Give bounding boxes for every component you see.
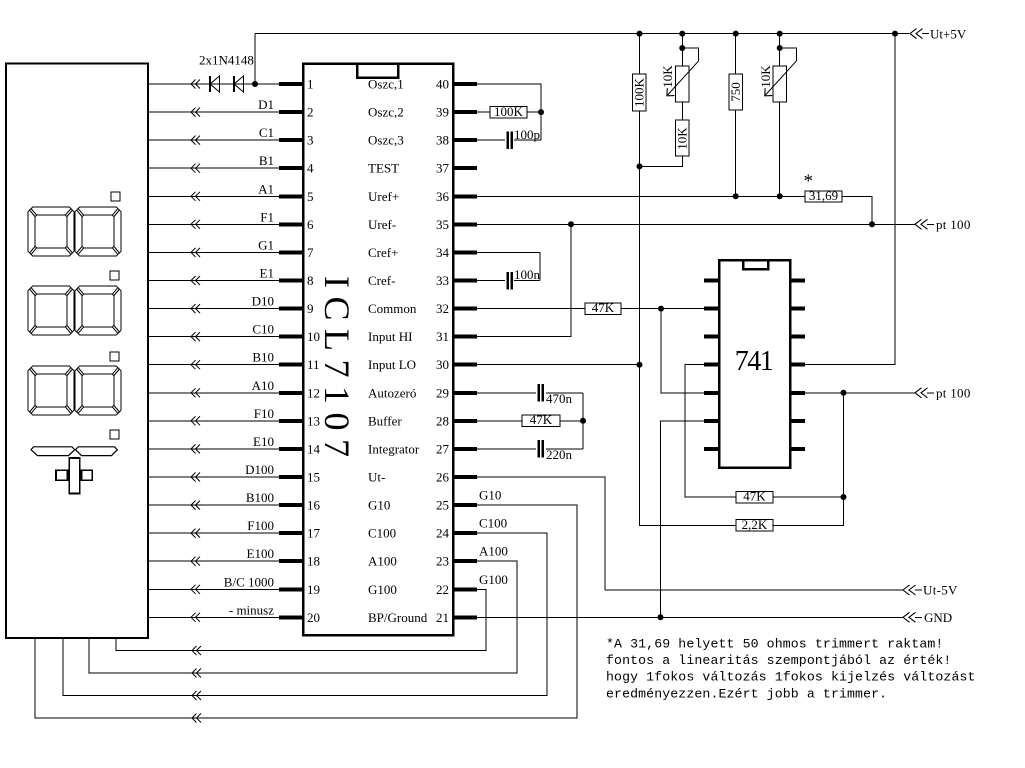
wire segment display to pin 15 (D100): [148, 476, 279, 478]
svg-text:Uref-: Uref-: [368, 217, 396, 232]
svg-text:- minusz: - minusz: [229, 602, 274, 617]
741 left pin 1 stub: [704, 279, 719, 283]
svg-text:9: 9: [307, 301, 314, 316]
ICL7107 pin 38 stub: [453, 138, 477, 142]
svg-text:A10: A10: [252, 378, 274, 393]
arrow on wire B/C 1000: [191, 585, 200, 594]
svg-text:G1: G1: [258, 237, 274, 252]
svg-text:C10: C10: [252, 322, 274, 337]
741 right pin 9 stub: [790, 419, 805, 423]
arrow into display (pin1 wire): [191, 80, 200, 89]
svg-text:Autozeró: Autozeró: [368, 385, 416, 400]
junction node rail/trimmer P1: [679, 31, 685, 37]
ICL7107 pin 7 stub: [279, 250, 303, 254]
svg-text:27: 27: [436, 441, 450, 456]
ICL7107 pin 20 stub: [279, 615, 303, 619]
svg-text:47K: 47K: [592, 300, 615, 315]
ICL7107 pin 23 stub: [453, 559, 477, 563]
svg-text:26: 26: [436, 470, 450, 485]
svg-text:F1: F1: [260, 209, 274, 224]
svg-text:23: 23: [436, 554, 449, 569]
svg-text:Integrator: Integrator: [368, 441, 420, 456]
ICL7107 pin 30 stub: [453, 363, 477, 367]
741 left pin 2 stub: [704, 307, 719, 311]
wire pin30 Input LO to divider line: [477, 364, 640, 366]
svg-text:750: 750: [728, 82, 743, 102]
wire segment display to pin 6 (F1): [148, 223, 279, 225]
wire segment display to pin 14 (E10): [148, 448, 279, 450]
svg-text:21: 21: [436, 610, 449, 625]
arrow on wire C1: [191, 136, 200, 145]
ICL7107 pin 11 stub: [279, 363, 303, 367]
svg-text:33: 33: [436, 273, 449, 288]
wire pin31 Input HI up to Uref- line: [477, 224, 571, 336]
junction node 100K/10K bottom: [637, 163, 643, 169]
svg-text:Input LO: Input LO: [368, 357, 416, 372]
arrow on G10 loop wire: [192, 714, 201, 723]
ICL7107 pin 12 stub: [279, 391, 303, 395]
capacitor C4 220n: [538, 440, 541, 458]
svg-text:35: 35: [436, 217, 449, 232]
ICL7107 pin 19 stub: [279, 587, 303, 591]
arrow on A100 loop wire: [192, 669, 201, 678]
svg-text:B10: B10: [252, 350, 274, 365]
ICL7107 pin 39 stub: [453, 110, 477, 114]
wire segment display to pin 18 (E100): [148, 560, 279, 562]
junction node rail/trimmer P2: [777, 31, 783, 37]
svg-text:13: 13: [307, 413, 320, 428]
arrow on wire F10: [191, 416, 200, 425]
svg-text:2,2K: 2,2K: [742, 517, 768, 532]
resistor R6 10K body: [681, 102, 683, 120]
svg-text:3: 3: [307, 133, 314, 148]
svg-text:E1: E1: [260, 266, 274, 281]
svg-text:29: 29: [436, 385, 449, 400]
arrow on C100 loop wire: [192, 691, 201, 700]
wire C 470n to RC junction: [546, 392, 583, 394]
wire segment display to pin 5 (A1): [148, 195, 279, 197]
arrow Ut+5V: [910, 29, 923, 39]
trimmer P2 10K body: [779, 34, 781, 66]
svg-text:hogy 1fokos változás 1fokos ki: hogy 1fokos változás 1fokos kijelzés vál…: [606, 670, 976, 685]
arrow on wire B10: [191, 360, 200, 369]
ICL7107 pin 5 stub: [279, 194, 303, 198]
wire segment display to pin 10 (C10): [148, 336, 279, 338]
wire G10 from chip pin to display (loop): [35, 505, 577, 718]
svg-text:19: 19: [307, 582, 320, 597]
wire R 31,69 to pt100 line: [842, 196, 872, 224]
trimmer P2 wiper wire and arrow: [780, 48, 797, 61]
svg-text:12: 12: [307, 385, 320, 400]
wire segment display to pin 17 (F100): [148, 532, 279, 534]
ICL7107 pin 15 stub: [279, 475, 303, 479]
svg-text:28: 28: [436, 413, 449, 428]
svg-text:fontos a linearitás szempontjá: fontos a linearitás szempontjából az ért…: [606, 653, 951, 668]
wire segment display to pin 9 (D10): [148, 308, 279, 310]
ICL7107 pin 9 stub: [279, 307, 303, 311]
svg-text:6: 6: [307, 217, 314, 232]
ICL7107 pin 36 stub: [453, 194, 477, 198]
wire G100 from chip pin to display (loop): [116, 589, 486, 650]
wire segment display to pin 19 (B/C 1000): [148, 588, 279, 590]
wire 741 pin2 junction down to pin5 (left): [661, 309, 704, 393]
svg-text:G100: G100: [479, 572, 508, 587]
junction node rail/750: [733, 31, 739, 37]
wire C 220n to RC junction: [546, 448, 583, 450]
wire segment display to pin 12 (A10): [148, 392, 279, 394]
capacitor C3 470n: [538, 384, 541, 402]
wire pin38 to C 100p: [477, 139, 505, 141]
wire segment display to pin 11 (B10): [148, 364, 279, 366]
ICL7107 pin 4 stub: [279, 166, 303, 170]
wire R6 10K bottom to 100K line: [640, 156, 683, 166]
ICL7107 pin 32 stub: [453, 307, 477, 311]
resistor R2 100K (oscillator) box: [490, 107, 527, 119]
svg-text:11: 11: [307, 357, 320, 372]
decimal point DP2: [110, 271, 119, 280]
wire pin29 Autozero to C 470n: [477, 392, 536, 394]
resistor R9 2,2K box: [736, 520, 773, 532]
svg-text:B100: B100: [246, 490, 274, 505]
ICL7107 pin 22 stub: [453, 587, 477, 591]
resistor R* 31,69 box: [805, 191, 842, 202]
wire R 47K to 741 pin2: [621, 308, 704, 310]
741 right pin 13 stub: [790, 307, 805, 311]
svg-text:10K: 10K: [660, 65, 675, 88]
ICL7107 pin 16 stub: [279, 503, 303, 507]
svg-text:30: 30: [436, 357, 449, 372]
arrow pt100 (upper): [915, 219, 928, 229]
svg-text:10: 10: [307, 329, 320, 344]
wire pin34 Cref+ elbow: [477, 252, 540, 280]
resistor R7 750 body: [735, 34, 737, 74]
arrow on wire F1: [191, 220, 200, 229]
svg-text:C100: C100: [479, 516, 507, 531]
digit-1 segment left (hexagon): [31, 447, 75, 456]
741 left pin 4 stub: [704, 363, 719, 367]
7-segment digit pair 2 (middle): [28, 286, 74, 335]
svg-text:18: 18: [307, 554, 320, 569]
svg-text:34: 34: [436, 245, 450, 260]
svg-text:31,69: 31,69: [809, 188, 838, 203]
svg-text:5: 5: [307, 189, 314, 204]
decimal point DP3: [110, 352, 119, 361]
junction node Uref-/Input HI: [568, 221, 574, 227]
svg-text:16: 16: [307, 498, 321, 513]
ICL7107 pin 37 stub: [453, 166, 477, 170]
svg-text:F100: F100: [247, 518, 274, 533]
ICL7107 pin 29 stub: [453, 391, 477, 395]
svg-text:A1: A1: [258, 181, 274, 196]
junction node trimmer P2 wiper: [777, 45, 783, 51]
junction node R750 bottom: [733, 193, 739, 199]
svg-text:741: 741: [735, 346, 773, 377]
wire segment display to pin 1 (through diodes): [148, 83, 279, 85]
svg-text:10K: 10K: [758, 65, 773, 88]
wire C100 from chip pin to display (loop): [63, 533, 547, 695]
svg-text:F10: F10: [254, 406, 274, 421]
ICL7107 pin 26 stub: [453, 475, 477, 479]
junction node buffer RC: [580, 418, 586, 424]
svg-text:24: 24: [436, 526, 450, 541]
svg-text:17: 17: [307, 526, 321, 541]
svg-text:C1: C1: [259, 125, 274, 140]
svg-text:100n: 100n: [514, 267, 541, 282]
decimal point DP4: [110, 430, 119, 439]
741 left pin 3 stub: [704, 335, 719, 339]
arrow on wire D1: [191, 108, 200, 117]
svg-text:10K: 10K: [675, 127, 690, 150]
svg-text:*: *: [804, 171, 814, 192]
ICL7107 pin 10 stub: [279, 335, 303, 339]
ICL7107 top notch: [357, 64, 398, 78]
wire 750 bottom to Uref+ line: [735, 110, 737, 196]
wire 741 pin6 left down to GND: [661, 421, 705, 618]
junction node 47K/741 inputs: [658, 306, 664, 312]
741 right pin 10 stub: [790, 391, 805, 395]
arrow on wire A1: [191, 192, 200, 201]
ICL7107 pin 34 stub: [453, 250, 477, 254]
polarity sign vertical bar: [69, 458, 79, 494]
arrow on wire E1: [191, 276, 200, 285]
wire segment display to pin 2 (D1): [148, 111, 279, 113]
wire trimmer P2 bottom to Uref+ line: [779, 102, 781, 196]
wire pin36 Uref+ to R 31,69: [477, 195, 805, 197]
svg-text:G100: G100: [368, 582, 397, 597]
ICL7107 pin 40 stub: [453, 82, 477, 86]
polarity sign left square: [56, 470, 68, 480]
wire pin35 Uref- to pt100 terminal: [477, 223, 915, 225]
svg-text:100K: 100K: [632, 77, 647, 107]
ICL7107 pin 24 stub: [453, 531, 477, 535]
resistor R3 47K (common) box: [585, 303, 621, 315]
svg-text:GND: GND: [924, 610, 952, 625]
junction node 31,69/pt100: [869, 221, 875, 227]
svg-text:14: 14: [307, 441, 321, 456]
arrow on wire F100: [191, 529, 200, 538]
ICL7107 pin 17 stub: [279, 531, 303, 535]
svg-text:22: 22: [436, 582, 449, 597]
wire 741 right pin5 to pt100 terminal: [805, 392, 915, 394]
arrow pt100 (lower): [915, 388, 928, 398]
junction node rail/741 V+: [892, 31, 898, 37]
wire segment display to pin 7 (G1): [148, 251, 279, 253]
display module LCD (3.5 digit) outline: [6, 64, 148, 639]
wire R9 2,2K right elbow up to junction: [773, 497, 844, 525]
wire C 100n to Cref+ elbow: [514, 280, 540, 282]
ICL7107 pin 14 stub: [279, 447, 303, 451]
arrow on wire - minusz: [191, 613, 200, 622]
svg-text:7: 7: [307, 245, 314, 260]
wire A100 from chip pin to display (loop): [89, 561, 517, 673]
trimmer P1 10K body: [681, 34, 683, 66]
741 left pin 5 stub: [704, 391, 719, 395]
trimmer P1 wiper wire and arrow: [682, 48, 698, 61]
wire segment display to pin 3 (C1): [148, 139, 279, 141]
svg-text:C100: C100: [368, 526, 396, 541]
arrow on wire B100: [191, 501, 200, 510]
svg-text:Oszc,2: Oszc,2: [368, 105, 404, 120]
svg-text:Ut-5V: Ut-5V: [923, 583, 958, 598]
wire segment display to pin 4 (B1): [148, 167, 279, 169]
svg-text:Oszc,1: Oszc,1: [368, 77, 404, 92]
junction node pin1/oscillator rail: [252, 81, 258, 87]
svg-text:15: 15: [307, 470, 320, 485]
svg-text:32: 32: [436, 301, 449, 316]
svg-text:G10: G10: [479, 488, 501, 503]
junction node 47K/2,2K/pt100: [841, 494, 847, 500]
ICL7107 pin 27 stub: [453, 447, 477, 451]
polarity sign right square: [82, 470, 93, 480]
ICL7107 pin 18 stub: [279, 559, 303, 563]
junction node rail/100K: [637, 31, 643, 37]
svg-text:E10: E10: [253, 434, 274, 449]
arrow on wire E10: [191, 444, 200, 453]
svg-text:40: 40: [436, 77, 449, 92]
ICL7107 pin 35 stub: [453, 222, 477, 226]
svg-text:38: 38: [436, 133, 449, 148]
7-segment digit pair 1 (top): [28, 207, 74, 256]
svg-text:Input HI: Input HI: [368, 329, 412, 344]
arrow on wire A10: [191, 388, 200, 397]
svg-text:1: 1: [307, 77, 314, 92]
wire pin40 Oszc1 to oscillator junction: [477, 84, 541, 112]
ICL7107 pin 21 stub: [453, 615, 477, 619]
svg-text:pt 100: pt 100: [936, 385, 971, 400]
junction node GND/741 pin6: [658, 614, 664, 620]
svg-text:*A 31,69 helyett 50 ohmos trim: *A 31,69 helyett 50 ohmos trimmert rakta…: [606, 637, 943, 652]
wire segment display to pin 16 (B100): [148, 504, 279, 506]
wire pin1 junction up to +5V rail: [254, 34, 256, 84]
svg-text:2: 2: [307, 105, 314, 120]
op-amp U1 741 body: [719, 260, 790, 468]
net Ut-5V wire: [605, 589, 903, 591]
svg-text:100K: 100K: [494, 104, 524, 119]
arrow on wire D100: [191, 473, 200, 482]
wire junction up to 741 right pin5 / pt100 lower: [843, 393, 845, 497]
741 top notch: [743, 260, 768, 269]
svg-text:Common: Common: [368, 301, 417, 316]
svg-text:eredményezzen.Ezért jobb a tri: eredményezzen.Ezért jobb a trimmer.: [606, 686, 887, 701]
resistor R8 47K (feedback) box: [736, 491, 773, 503]
ICL7107 pin 8 stub: [279, 279, 303, 283]
wire pin39 to R 100K: [477, 111, 490, 113]
arrow on G100 loop wire: [192, 646, 201, 655]
wire pin26 Ut- elbow down to Ut-5V line: [477, 477, 605, 590]
ICL7107 pin 13 stub: [279, 419, 303, 423]
svg-text:B1: B1: [259, 153, 274, 168]
svg-text:Cref+: Cref+: [368, 245, 398, 260]
arrow Ut-5V: [903, 585, 916, 595]
net Ut+5V top rail wire: [255, 33, 909, 35]
wire 100K down long vertical to 2,2K: [640, 111, 737, 525]
net GND wire from pin21 BP/Ground: [477, 616, 903, 618]
arrow on wire E100: [191, 557, 200, 566]
digit-1 segment right (hexagon): [76, 447, 118, 456]
svg-text:47K: 47K: [530, 412, 553, 427]
wire pin33 Cref- to C 100n: [477, 280, 505, 282]
decimal point DP1: [111, 192, 120, 201]
svg-text:8: 8: [307, 273, 314, 288]
wire segment display to pin 13 (F10): [148, 420, 279, 422]
arrow on wire G1: [191, 248, 200, 257]
741 left pin 7 stub: [704, 447, 719, 451]
junction node trimmer2 bottom: [777, 193, 783, 199]
wire pin27 Integrator to C 220n: [477, 448, 536, 450]
741 right pin 14 stub: [790, 279, 805, 283]
741 right pin 11 stub: [790, 363, 805, 367]
wire RC junction vertical: [582, 393, 584, 449]
svg-text:Ut-: Ut-: [368, 470, 385, 485]
junction node oscillator: [538, 109, 544, 115]
ICL7107 pin 1 stub: [279, 82, 303, 86]
svg-text:2x1N4148: 2x1N4148: [199, 53, 254, 68]
svg-text:ICL7107: ICL7107: [317, 276, 357, 466]
svg-text:47K: 47K: [743, 489, 766, 504]
junction node feedback/pt100 lower: [841, 390, 847, 396]
ICL7107 pin 28 stub: [453, 419, 477, 423]
diode D2 1N4148: [233, 76, 235, 92]
arrow on wire B1: [191, 164, 200, 173]
arrow on wire C10: [191, 332, 200, 341]
wire segment display to pin 20 (- minusz): [148, 616, 279, 618]
junction node trimmer P1 wiper: [679, 45, 685, 51]
capacitor C2 100n: [506, 272, 509, 290]
svg-text:B/C 1000: B/C 1000: [224, 574, 274, 589]
svg-text:BP/Ground: BP/Ground: [368, 610, 428, 625]
ICL7107 pin 33 stub: [453, 279, 477, 283]
junction node Input LO / divider: [637, 362, 643, 368]
svg-text:D1: D1: [258, 97, 274, 112]
741 right pin 8 stub: [790, 447, 805, 451]
svg-text:20: 20: [307, 610, 320, 625]
svg-text:Oszc,3: Oszc,3: [368, 133, 404, 148]
svg-text:36: 36: [436, 189, 450, 204]
svg-text:Cref-: Cref-: [368, 273, 395, 288]
741 right pin 12 stub: [790, 335, 805, 339]
IC U2 ICL7107 body: [303, 64, 453, 636]
7-segment digit pair 3 (bottom): [28, 366, 74, 415]
svg-text:A100: A100: [479, 544, 508, 559]
741 left pin 6 stub: [704, 419, 719, 423]
resistor R4 47K (buffer) box: [522, 415, 560, 427]
wire Ut+5V rail to 741 V+ (long vertical): [805, 34, 895, 365]
svg-text:TEST: TEST: [368, 161, 399, 176]
svg-text:D100: D100: [245, 462, 274, 477]
wire R 100K to junction: [527, 111, 541, 113]
ICL7107 pin 6 stub: [279, 222, 303, 226]
svg-text:4: 4: [307, 161, 314, 176]
ICL7107 pin 2 stub: [279, 110, 303, 114]
svg-text:37: 37: [436, 161, 450, 176]
svg-text:A100: A100: [368, 554, 397, 569]
svg-text:39: 39: [436, 105, 449, 120]
wire R 47K buffer to RC junction: [560, 420, 583, 422]
arrow GND: [903, 612, 916, 622]
svg-text:G10: G10: [368, 498, 390, 513]
diode D1 1N4148: [209, 76, 211, 92]
svg-text:31: 31: [436, 329, 449, 344]
wire 741 pin4 left elbow down to R 47K: [685, 365, 736, 497]
wire C 100p to oscillator junction: [514, 112, 541, 140]
wire R8 47K to junction: [773, 496, 844, 498]
wire pin32 Common to R 47K: [477, 308, 585, 310]
svg-text:E100: E100: [247, 546, 274, 561]
capacitor C1 100p: [506, 131, 509, 149]
wire pin28 Buffer to R 47K: [477, 420, 522, 422]
svg-text:pt 100: pt 100: [936, 217, 971, 232]
ICL7107 pin 31 stub: [453, 335, 477, 339]
